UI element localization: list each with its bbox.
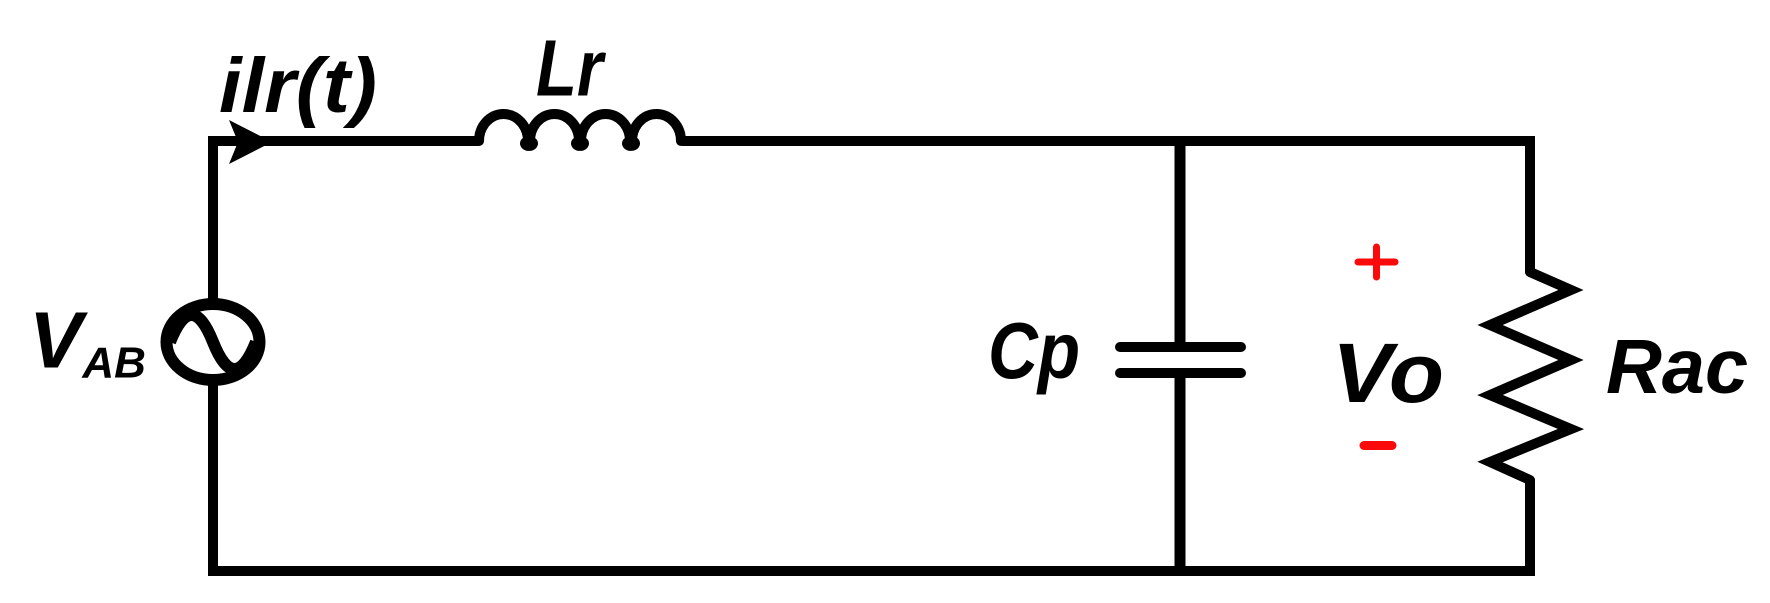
minus sign (red) (1364, 441, 1392, 450)
capacitor Cp plates (1120, 347, 1241, 373)
plus sign (red) (1358, 247, 1395, 277)
AC voltage source VAB circle (167, 304, 260, 380)
svg-text:Lr: Lr (536, 24, 606, 113)
wire: capacitor branch upper (1175, 141, 1186, 347)
wire: right vertical upper (to resistor top) (1530, 141, 1535, 272)
wire: top wire from inductor to right corner (682, 136, 1530, 146)
inductor Lr coil (479, 114, 681, 146)
svg-text:Cp: Cp (988, 306, 1080, 395)
svg-text:ilr(t): ilr(t) (219, 43, 377, 129)
wire: capacitor branch lower (1175, 373, 1186, 571)
sine wave inside source VAB (170, 315, 256, 369)
svg-text:Vo: Vo (1332, 326, 1444, 420)
wire: left vertical lower + bottom wire + right vertical lower (213, 380, 1530, 571)
resistor Rac zigzag (1490, 272, 1571, 480)
arrow (current direction) (229, 120, 272, 164)
wire: top-left corner, left vertical upper + top wire to inductor (213, 141, 479, 304)
svg-text:Rac: Rac (1606, 324, 1748, 410)
